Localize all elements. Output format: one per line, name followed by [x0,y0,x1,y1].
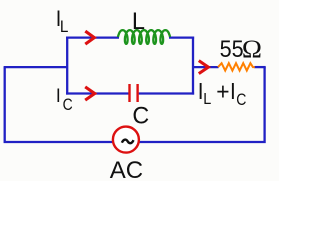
svg-text:L: L [60,17,69,36]
AC source circle [113,127,139,153]
arrow IL current [85,31,94,44]
wire top branch left [66,36,119,38]
wire resistor branch right [254,66,265,68]
wire left connector [4,66,68,68]
svg-text:AC: AC [110,157,143,181]
svg-text:L: L [132,8,145,35]
svg-text:+: + [216,78,229,105]
wire inner-left vertical [66,37,68,95]
AC sine tilde [122,140,134,144]
arrow IC current [85,87,95,100]
svg-text:C: C [132,103,149,129]
svg-text:C: C [63,96,73,115]
resistor 55 ohm zigzag [218,63,255,70]
wire top branch right [169,36,194,38]
capacitor C plate right [136,84,138,102]
inductor L coil [118,30,170,44]
svg-text:L: L [203,90,211,108]
wire resistor branch left [193,66,219,68]
svg-text:C: C [236,91,246,109]
svg-text:Ω: Ω [242,35,262,63]
svg-text:55: 55 [220,35,244,62]
svg-text:I: I [56,84,61,106]
wire outer bottom loop [5,67,265,142]
arrow IL+IC current [199,61,209,74]
wire right-node vertical [192,37,194,95]
svg-text:I: I [230,78,236,104]
wire capacitor branch left [66,92,128,94]
capacitor C plate left [128,84,130,102]
wire capacitor branch right [139,92,195,94]
